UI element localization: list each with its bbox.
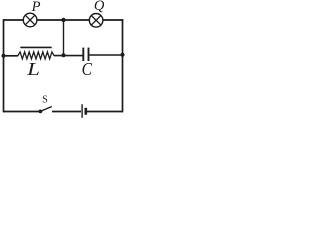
wire left vertical <box>3 19 5 112</box>
svg-text:Q: Q <box>94 0 105 14</box>
wire bottom-middle segment <box>52 111 81 113</box>
wire bottom-right segment <box>87 111 123 113</box>
node middle-right junction <box>121 53 125 57</box>
lamp P <box>23 13 37 27</box>
battery long plate <box>81 104 83 118</box>
inductor L zigzag <box>18 52 54 59</box>
wire center vertical <box>63 20 65 56</box>
wire bottom-left segment <box>3 111 40 113</box>
wire top-right segment <box>103 19 123 21</box>
wire middle-right lead <box>89 54 123 56</box>
battery short plate <box>85 108 88 115</box>
svg-text:C: C <box>82 59 93 79</box>
inductor L core bar <box>20 46 51 48</box>
svg-text:L: L <box>26 60 40 79</box>
wire right vertical <box>122 19 124 112</box>
node middle junction <box>62 53 66 57</box>
lamp Q <box>89 13 103 27</box>
switch S blade <box>40 107 51 112</box>
capacitor C <box>83 48 88 61</box>
wire middle lead from L to C <box>54 55 83 57</box>
svg-text:P: P <box>31 0 41 15</box>
node middle-left junction <box>2 54 6 58</box>
wire top-middle segment <box>37 19 90 21</box>
wire top-left segment <box>3 19 23 21</box>
svg-text:S: S <box>42 95 48 106</box>
switch S contact <box>39 110 43 114</box>
node top junction <box>61 18 65 22</box>
wire middle-left lead <box>4 55 19 57</box>
